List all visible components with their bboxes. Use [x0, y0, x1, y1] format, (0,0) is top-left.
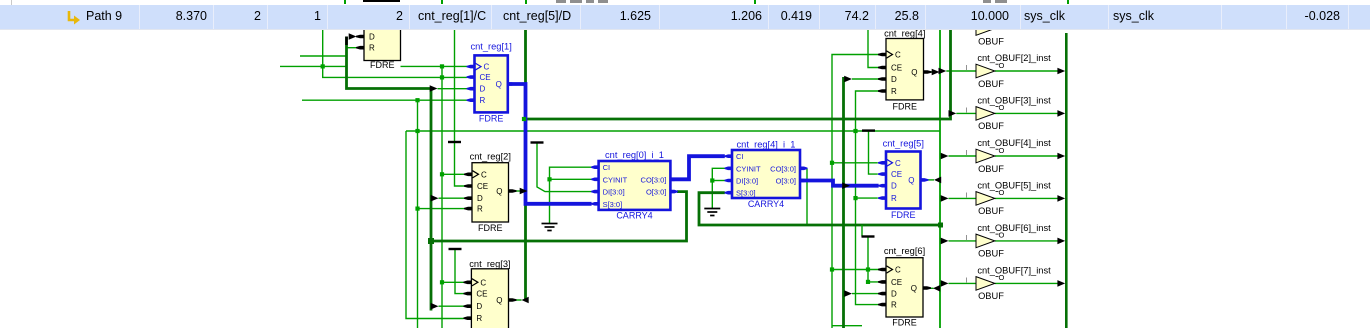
wire clock branch to cnt_reg[3]/C: [442, 281, 464, 283]
gray text remnant: [556, 0, 566, 3]
arrowhead cnt_reg[3]/Q continuation: [522, 297, 529, 304]
wire clock rail right column: [832, 55, 879, 328]
svg-text:C: C: [481, 170, 487, 179]
wire CO[3:0] fanout of cnt_reg[4]_i_1: [806, 168, 808, 225]
svg-text:FDRE: FDRE: [892, 318, 917, 328]
wire adder output bus vertical left: [430, 89, 433, 311]
svg-text:Q: Q: [496, 187, 502, 196]
arrowhead on selected path into cnt_reg[5]/D: [842, 182, 850, 189]
wire vertical bus x843: [842, 77, 845, 328]
junction clock rail top: [440, 64, 444, 68]
wire const net to cnt_reg[3]/CE: [455, 250, 464, 294]
wire clock branch to cnt_reg[2]/C: [442, 173, 464, 175]
svg-text:D: D: [476, 302, 482, 311]
output buffer cnt_OBUF[3]_inst (OBUF): [965, 95, 1051, 131]
svg-text:C: C: [895, 266, 901, 275]
junction reset rail y130: [415, 129, 419, 133]
output buffer cnt_OBUF[5]_inst (OBUF): [965, 180, 1051, 216]
wire clock branch to cnt_reg[5]/C: [832, 162, 878, 164]
junction on clock net: [321, 64, 325, 68]
arrowhead cnt_OBUF[3]_inst output continuation: [1057, 110, 1065, 117]
svg-text:Q: Q: [911, 284, 917, 293]
svg-text:R: R: [476, 314, 482, 323]
wire CE net into cnt_reg[1]/CE: [323, 25, 467, 77]
wire const net to DI[3:0] of cnt_reg[0]_i_1: [537, 144, 592, 192]
wire gnd branch to CYINIT: [550, 178, 592, 180]
arrowhead into cnt_OBUF[4]_inst input: [941, 153, 949, 160]
wire cnt_reg[6]/Q net: [923, 287, 934, 289]
arrowhead into cnt_reg[4] D: [844, 76, 852, 83]
svg-text:Q: Q: [496, 296, 502, 305]
power (const) bar const1 for DI: [531, 141, 544, 143]
output buffer OBUF (OBUF): [976, 22, 1004, 47]
carry chain cnt_reg[0]_i_1 (CARRY4): [591, 150, 678, 221]
green wire remnant: [754, 0, 756, 4]
svg-text:OBUF: OBUF: [978, 291, 1004, 301]
wire CE net to cnt_reg[6]/CE: [868, 237, 879, 282]
junction crossing near cnt_reg[6] C: [866, 267, 870, 271]
junction clock to cnt_reg[2]: [440, 172, 444, 176]
junction CE line crossing: [440, 75, 444, 79]
green wire remnant: [441, 0, 443, 4]
path icon (bent yellow arrow): [66, 10, 82, 26]
svg-text:D: D: [891, 290, 897, 299]
svg-text:cnt_reg[3]: cnt_reg[3]: [469, 259, 510, 269]
wire selected path O[3:0] to cnt_reg[5]/D: [800, 181, 879, 186]
junction bus end on x940: [938, 223, 943, 228]
junction gnd rail DI: [710, 178, 714, 182]
svg-text:FDRE: FDRE: [891, 210, 916, 220]
junction adder bus corner: [428, 238, 434, 244]
svg-text:S[3:0]: S[3:0]: [736, 189, 756, 198]
wire const net to cnt_reg[2]/CE: [455, 25, 465, 186]
svg-text:DI[3:0]: DI[3:0]: [736, 177, 758, 186]
svg-text:O[3:0]: O[3:0]: [776, 177, 796, 186]
svg-text:FDRE: FDRE: [370, 60, 395, 70]
wire clock net into cnt_reg[1]/C (right segment): [401, 65, 467, 67]
arrowhead cnt_OBUF[5]_inst output continuation: [1057, 195, 1065, 202]
wire input net of cnt_OBUF[4]_inst: [949, 155, 977, 157]
flip-flop cnt_reg[2] (FDRE): [464, 152, 517, 234]
svg-text:I: I: [965, 233, 967, 242]
gray text remnant: [598, 0, 608, 3]
svg-text:cnt_OBUF[6]_inst: cnt_OBUF[6]_inst: [977, 223, 1051, 233]
wire black pin segment at partial FDRE D: [345, 37, 348, 46]
wire input net of cnt_OBUF[2]_inst: [946, 70, 976, 72]
svg-text:I: I: [965, 63, 967, 72]
svg-text:R: R: [891, 87, 897, 96]
arrowhead into partial FDRE D: [349, 33, 357, 40]
wire fanout of cnt_reg[1]/Q above: [524, 25, 527, 84]
svg-text:C: C: [484, 63, 490, 72]
green wire remnant: [525, 0, 527, 4]
timing table selected row: Path 9: [0, 5, 1370, 29]
wire cnt_reg[5]/Q net: [921, 179, 935, 181]
wire clock rail left column: [441, 66, 443, 328]
svg-text:I: I: [965, 148, 967, 157]
svg-text:CO[3:0]: CO[3:0]: [770, 164, 796, 173]
wire output net of cnt_OBUF[6]_inst: [995, 240, 1059, 242]
wire clock net into cnt_reg[1]/C (left segment): [280, 65, 347, 67]
gray text remnant: [570, 0, 582, 3]
svg-text:O[3:0]: O[3:0]: [646, 188, 666, 197]
wire long horizontal net y130: [406, 130, 940, 132]
junction reset rail cnt_reg[5]: [853, 196, 857, 200]
arrowhead cnt_OBUF[2]_inst output continuation: [1057, 68, 1065, 75]
svg-text:CYINIT: CYINIT: [736, 164, 761, 173]
wire fanout of cnt_reg[1]/Q below: [524, 204, 527, 300]
svg-text:OBUF: OBUF: [978, 36, 1004, 46]
svg-text:R: R: [891, 194, 897, 203]
wire D input net of cnt_reg[3]: [439, 305, 464, 307]
svg-text:OBUF: OBUF: [978, 249, 1004, 259]
wire CE net to cnt_reg[4]/CE: [868, 25, 879, 68]
arrowhead cnt_reg[4]/Q continuation: [932, 69, 940, 76]
wire input net of cnt_OBUF[3]_inst: [956, 112, 976, 114]
svg-text:OBUF: OBUF: [978, 79, 1004, 89]
wire input net of cnt_OBUF[6]_inst: [949, 240, 977, 242]
wire reset rail right column: [856, 91, 879, 305]
arrowhead into cnt_OBUF[5]_inst input: [941, 195, 949, 202]
wire output net of cnt_OBUF[3]_inst: [995, 112, 1059, 114]
wire D input net of cnt_reg[4]: [852, 78, 879, 80]
svg-text:cnt_OBUF[3]_inst: cnt_OBUF[3]_inst: [977, 95, 1051, 105]
wire net into bus elbow: [300, 55, 347, 57]
wire cnt_reg[3]/Q net: [509, 299, 522, 301]
ground symbol below CARRY4 cnt_reg[4]_i_1: [704, 209, 720, 216]
wire reset branch to cnt_reg[5]/R: [856, 197, 878, 199]
flip-flop FDRE (FDRE): [356, 3, 401, 71]
wire output net of cnt_OBUF[4]_inst: [995, 155, 1059, 157]
wire cnt_reg[2]/Q net: [509, 190, 521, 192]
svg-text:CE: CE: [476, 290, 487, 299]
svg-text:R: R: [477, 205, 483, 214]
svg-text:CARRY4: CARRY4: [748, 199, 784, 209]
svg-text:CO[3:0]: CO[3:0]: [641, 175, 667, 184]
svg-text:R: R: [891, 301, 897, 310]
wire output net of cnt_OBUF[7]_inst: [995, 282, 1059, 284]
arrowhead cnt_reg[6]/Q continuation: [933, 285, 940, 292]
column tick remnant: [11, 0, 12, 5]
svg-text:cnt_OBUF[7]_inst: cnt_OBUF[7]_inst: [977, 265, 1051, 275]
svg-text:Q: Q: [496, 80, 502, 89]
svg-text:I: I: [965, 105, 967, 114]
junction reset rail top: [415, 98, 419, 102]
svg-text:cnt_OBUF[4]_inst: cnt_OBUF[4]_inst: [977, 138, 1051, 148]
arrowhead cnt_reg[2]/Q continuation: [520, 188, 528, 195]
power (const) bar const1 for cnt_reg[3]/CE: [449, 248, 462, 250]
svg-text:CYINIT: CYINIT: [603, 175, 628, 184]
flip-flop cnt_reg[1] (FDRE): [467, 42, 516, 124]
power (const) bar const1 for cnt_reg[6]/CE: [862, 235, 875, 237]
wire input net of cnt_OBUF[7]_inst: [949, 282, 977, 284]
svg-text:CE: CE: [891, 170, 902, 179]
flip-flop cnt_reg[6] (FDRE): [878, 246, 931, 327]
svg-text:OBUF: OBUF: [978, 164, 1004, 174]
wire adder output bus O[3:0] of cnt_reg[0]_i_1: [431, 192, 687, 241]
carry chain cnt_reg[4]_i_1 (CARRY4): [725, 140, 808, 209]
junction y130 net crossing: [853, 129, 857, 133]
flip-flop cnt_reg[3] (FDRE): [463, 259, 516, 328]
arrowhead into cnt_OBUF[7]_inst input: [941, 280, 949, 287]
svg-text:D: D: [477, 194, 483, 203]
svg-text:S[3:0]: S[3:0]: [603, 200, 623, 209]
ground symbol below CARRY4 cnt_reg[0]_i_1: [542, 224, 558, 231]
wire output net of cnt_OBUF[5]_inst: [995, 197, 1059, 199]
svg-text:C: C: [895, 159, 901, 168]
row bottom border: [0, 29, 1370, 31]
wire clock branch to cnt_reg[6]/C: [832, 269, 879, 271]
arrowhead cnt_OBUF[4]_inst output continuation: [1057, 153, 1065, 160]
svg-text:D: D: [480, 85, 486, 94]
svg-text:CE: CE: [480, 73, 491, 82]
svg-text:CARRY4: CARRY4: [616, 211, 652, 221]
wire gnd rail CARRY4 cnt_reg[4]_i_1 CYINIT: [712, 168, 725, 208]
arrowhead cnt_OBUF[7]_inst output continuation: [1057, 280, 1065, 287]
svg-text:D: D: [891, 75, 897, 84]
output buffer cnt_OBUF[6]_inst (OBUF): [965, 223, 1051, 259]
wire fanout of cnt_reg[1]/Q right and up: [526, 25, 951, 119]
wire output net of cnt_OBUF[2]_inst: [995, 70, 1059, 72]
power (const) bar const1 for cnt_reg[2]/CE: [448, 141, 461, 143]
wire rail to cnt_reg[3]/R: [406, 131, 464, 319]
gray text remnant: [586, 0, 594, 3]
svg-text:CI: CI: [736, 152, 744, 161]
arrowhead into cnt_reg[2] D: [431, 195, 439, 202]
svg-text:Q: Q: [908, 176, 914, 185]
svg-text:CE: CE: [477, 182, 488, 191]
green wire remnant: [344, 0, 346, 4]
output buffer cnt_OBUF[4]_inst (OBUF): [965, 138, 1051, 174]
svg-text:I: I: [965, 275, 967, 284]
wire selected path cnt_reg[1]/Q to S[3:0]: [508, 84, 592, 204]
wire net into partial FDRE R pin: [347, 47, 357, 49]
svg-text:cnt_OBUF[5]_inst: cnt_OBUF[5]_inst: [977, 180, 1051, 190]
wire reset rail to cnt_reg[2]/R: [417, 100, 419, 328]
svg-text:Q: Q: [911, 68, 917, 77]
gray text remnant: [995, 0, 1007, 3]
wire gnd rail to CARRY4 cnt_reg[0]_i_1 CI: [550, 167, 592, 223]
wire selected path CO[3:0] to CI: [670, 156, 724, 179]
junction clock rail cnt_reg[6]: [830, 267, 834, 271]
wire vertical net x940: [939, 25, 941, 328]
wire short net bottom near cnt_reg[6]: [832, 325, 862, 327]
arrowhead into cnt_OBUF[2]_inst input: [939, 68, 947, 75]
svg-text:cnt_reg[4]_i_1: cnt_reg[4]_i_1: [737, 140, 796, 150]
svg-text:R: R: [480, 96, 486, 105]
svg-text:cnt_reg[2]: cnt_reg[2]: [470, 152, 511, 162]
arrowhead into cnt_OBUF[3]_inst input: [949, 110, 957, 117]
svg-text:DI[3:0]: DI[3:0]: [603, 188, 625, 197]
wire S[3:0] feed of cnt_reg[4]_i_1: [699, 193, 941, 225]
svg-text:CE: CE: [891, 64, 902, 73]
svg-text:cnt_reg[0]_i_1: cnt_reg[0]_i_1: [605, 150, 664, 160]
wire reset net to cnt_reg[1]/R: [302, 99, 467, 101]
wire input net of cnt_OBUF[5]_inst: [949, 197, 977, 199]
wire const net to cnt_reg[5]/CE: [869, 131, 878, 175]
output buffer cnt_OBUF[7]_inst (OBUF): [965, 265, 1051, 301]
arrowhead into cnt_reg[1] D rail: [430, 85, 438, 92]
output buffer cnt_OBUF[2]_inst (OBUF): [965, 53, 1051, 89]
junction clock rail cnt_reg[5]: [830, 161, 834, 165]
wire vertical net x1066 (OBUF output rail): [1065, 33, 1068, 328]
power (const) bar const1 right CE rail: [862, 129, 875, 131]
svg-text:CI: CI: [603, 163, 611, 172]
black bar remnant (FDRE body bottom): [363, 0, 400, 2]
svg-text:FDRE: FDRE: [478, 223, 503, 233]
svg-text:R: R: [369, 44, 375, 53]
arrowhead into cnt_reg[6] D: [844, 290, 852, 297]
svg-text:OBUF: OBUF: [978, 206, 1004, 216]
svg-text:I: I: [965, 190, 967, 199]
wire D input net of cnt_reg[6]: [852, 293, 879, 295]
svg-text:cnt_OBUF[2]_inst: cnt_OBUF[2]_inst: [977, 53, 1051, 63]
green wire remnant: [1067, 0, 1069, 4]
arrowhead cnt_OBUF[6]_inst output continuation: [1057, 238, 1065, 245]
arrowhead cnt_reg[5]/Q continuation: [934, 177, 941, 184]
top partial row band: [0, 0, 1370, 5]
svg-text:cnt_reg[6]: cnt_reg[6]: [884, 246, 925, 256]
arrowhead into cnt_reg[3] D: [431, 303, 439, 310]
svg-text:FDRE: FDRE: [479, 114, 504, 124]
wire gnd branch to DI[3:0] of cnt_reg[4]_i_1: [712, 180, 725, 182]
svg-text:OBUF: OBUF: [978, 121, 1004, 131]
gray text remnant: [983, 0, 991, 3]
arrowhead into cnt_OBUF[6]_inst input: [941, 238, 949, 245]
flip-flop cnt_reg[4] (FDRE): [878, 29, 932, 112]
wire D input net of cnt_reg[2]: [439, 197, 465, 199]
svg-text:cnt_reg[5]: cnt_reg[5]: [883, 139, 924, 149]
junction CE net cnt_reg[6]: [866, 280, 870, 284]
wire bus net at partial FDRE D: [347, 37, 431, 89]
svg-text:cnt_reg[1]: cnt_reg[1]: [470, 42, 511, 52]
wire stub to const1 bar lower: [861, 225, 863, 237]
junction gnd rail CYINIT: [547, 177, 551, 181]
svg-text:D: D: [891, 182, 897, 191]
wire D input net of cnt_reg[1]: [438, 88, 467, 90]
flip-flop cnt_reg[5] (FDRE): [878, 139, 929, 221]
svg-text:CE: CE: [891, 278, 902, 287]
junction fanout on selected net: [522, 117, 526, 121]
svg-text:C: C: [895, 51, 901, 60]
wire cnt_reg[4]/Q net: [924, 71, 933, 73]
junction clock to cnt_reg[3]: [440, 280, 444, 284]
junction reset rail cnt_reg[2]: [415, 207, 419, 211]
svg-text:C: C: [480, 278, 486, 287]
wire reset branch to cnt_reg[2]/R: [418, 208, 465, 210]
svg-text:D: D: [369, 33, 375, 42]
svg-text:FDRE: FDRE: [893, 101, 918, 111]
